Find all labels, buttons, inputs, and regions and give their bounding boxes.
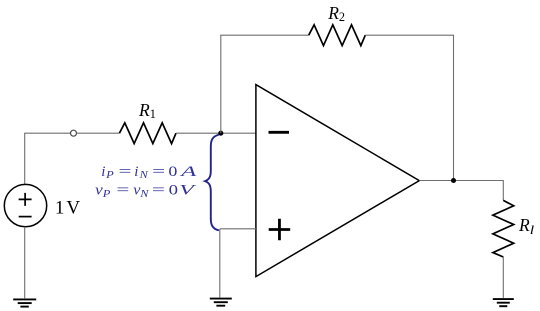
wire R1 to node to op-amp minus input [176,132,256,134]
wire Rl to ground [502,257,504,298]
wire source to ground [24,227,26,298]
svg-text:1: 1 [55,198,65,219]
resistor Rl [493,200,514,257]
op-amp plus symbol [269,219,291,241]
wire input line: source corner to open terminal [24,132,70,134]
wire left rail top: source to input line [24,133,26,184]
ground left (source) [13,299,36,306]
ground right (load) [493,299,514,306]
terminal open circle [71,130,77,136]
wire feedback right vertical [453,35,455,181]
ground middle (non-inverting input) [210,299,232,306]
wire feedback top left [220,34,308,36]
op-amp U1 triangle [256,85,419,277]
op-amp minus symbol [269,131,290,134]
wire output down to Rl [502,180,504,200]
brace annotation (blue) [205,135,218,230]
wire op-amp output [419,180,503,182]
wire node up to feedback [220,35,222,133]
voltage source minus sign [19,216,32,218]
node junction dot (inverting input) [218,131,223,136]
resistor R1 [119,123,176,144]
node junction dot (output) [451,178,456,183]
voltage source V1 circle [4,184,46,226]
svg-text:V: V [66,198,80,219]
wire op-amp plus input [220,229,256,298]
voltage source plus sign [19,193,32,206]
wire terminal to R1 [77,132,120,134]
wire feedback top right [365,34,453,36]
resistor R2 [309,25,366,46]
